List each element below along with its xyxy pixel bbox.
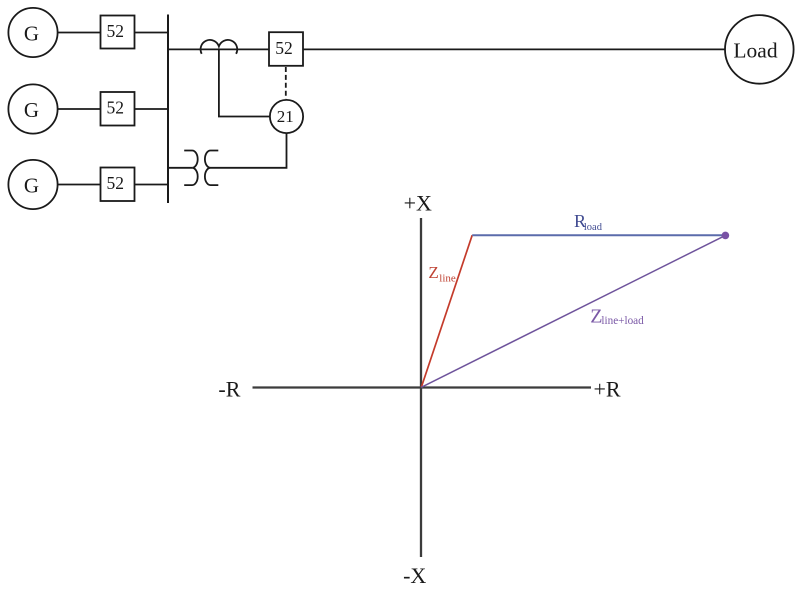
svg-text:load: load (584, 222, 603, 233)
generator G1 (8, 8, 57, 57)
vector Z_line+load (purple) (421, 235, 725, 387)
wire G1 to breaker (58, 32, 101, 34)
svg-text:52: 52 (107, 98, 125, 118)
svg-text:-R: -R (218, 377, 240, 402)
breaker 52 (top-left) (101, 16, 135, 49)
svg-text:Load: Load (733, 39, 777, 63)
svg-text:52: 52 (107, 173, 125, 193)
breaker 52 (middle-left) (101, 92, 135, 126)
svg-text:52: 52 (275, 38, 293, 58)
wire G2 to breaker (58, 108, 101, 110)
R-X diagram: R axis (horizontal) (253, 386, 592, 388)
breaker 52 (bottom-left) (101, 168, 135, 202)
wire G3 to breaker (58, 184, 101, 186)
svg-text:G: G (24, 22, 39, 46)
bus (167, 15, 169, 204)
vector R_load (blue) (472, 234, 725, 236)
end point dot (722, 232, 730, 240)
wire 21 to PT (211, 133, 287, 168)
svg-text:+X: +X (404, 190, 432, 215)
svg-text:Z: Z (428, 263, 438, 282)
load (725, 15, 794, 84)
svg-text:G: G (24, 174, 39, 198)
current transformer CT (201, 40, 238, 54)
vector Z_line (red) (421, 235, 472, 387)
breaker 52 (line breaker) (269, 32, 303, 66)
svg-text:52: 52 (107, 21, 125, 41)
generator G3 (8, 160, 57, 209)
wire bus to breaker 52 (line) (168, 48, 269, 50)
wire breaker to bus (row 1) (135, 32, 169, 34)
svg-text:G: G (24, 98, 39, 122)
potential transformer PT (184, 151, 218, 186)
svg-text:line: line (439, 272, 456, 284)
svg-text:line+load: line+load (601, 315, 644, 327)
generator G2 (8, 84, 57, 133)
svg-text:-X: -X (403, 563, 426, 588)
R-X diagram: X axis (vertical) (420, 218, 422, 557)
dashed trip wire 52 to 21 (285, 67, 287, 99)
wire CT tap vertical (219, 49, 270, 116)
wire breaker to load (303, 48, 725, 50)
wire breaker to bus (row 3) (135, 184, 169, 186)
wire bus to PT (168, 167, 192, 169)
relay 21 (270, 100, 303, 133)
svg-text:21: 21 (277, 107, 294, 126)
svg-text:+R: +R (594, 377, 621, 402)
wire breaker to bus (row 2) (135, 108, 169, 110)
